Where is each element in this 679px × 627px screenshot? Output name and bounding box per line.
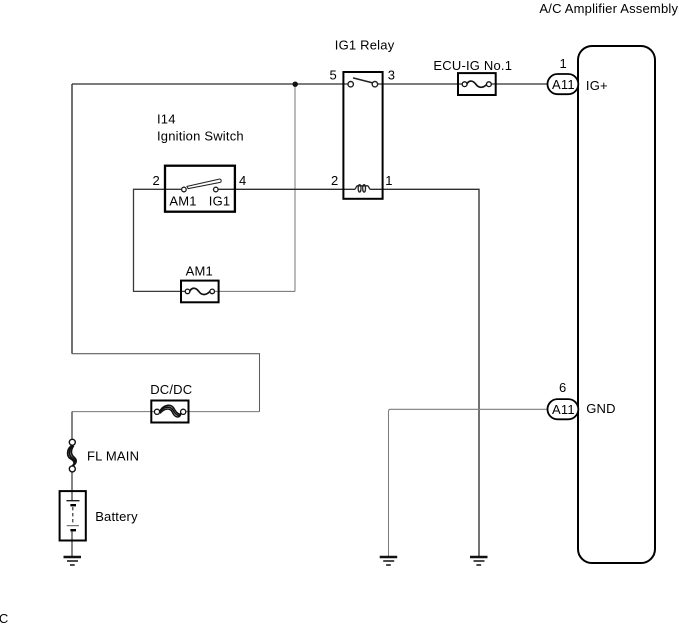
ignition switch IG1 contact circle bbox=[214, 187, 219, 192]
A/C amplifier assembly box bbox=[578, 46, 655, 563]
ignition switch lever bbox=[187, 179, 221, 189]
wire: ignition switch pin 4 to relay coil pin 2 bbox=[218, 188, 355, 190]
battery plate short top bbox=[70, 504, 76, 506]
svg-text:A11: A11 bbox=[552, 77, 575, 92]
ignition switch I14 box bbox=[165, 166, 235, 212]
relay IG1 box bbox=[343, 72, 382, 199]
svg-text:C: C bbox=[0, 611, 8, 626]
battery plate long bottom bbox=[67, 525, 79, 527]
relay coil bbox=[355, 185, 371, 192]
relay pin 3 contact circle bbox=[372, 82, 377, 87]
wire: relay coil pin 1 to ground riser bbox=[370, 189, 479, 556]
svg-text:1: 1 bbox=[385, 173, 392, 188]
wire: battery negative to ground bbox=[71, 530, 73, 556]
fusible link FL MAIN element bbox=[68, 445, 76, 466]
wire: DC/DC left lead bbox=[72, 411, 154, 413]
wire: jog over to DC/DC output riser bbox=[72, 354, 260, 412]
connector A11 pin 1 oval bbox=[548, 74, 579, 94]
wire: battery feed top horizontal to relay pin 5 bbox=[72, 83, 348, 85]
svg-text:IG1 Relay: IG1 Relay bbox=[335, 37, 395, 52]
svg-text:IG1: IG1 bbox=[209, 194, 231, 209]
wire: branch from junction down to AM1 fuse line bbox=[294, 84, 296, 291]
battery plate short bottom bbox=[70, 529, 76, 531]
fusible link FL MAIN bottom terminal bbox=[69, 466, 75, 472]
fuse AM1 right terminal bbox=[210, 289, 215, 294]
ignition switch AM1 contact circle bbox=[182, 187, 187, 192]
svg-text:DC/DC: DC/DC bbox=[150, 382, 192, 397]
fusible link DC/DC left terminal bbox=[154, 409, 159, 414]
connector A11 pin 6 oval bbox=[548, 399, 579, 419]
svg-text:ECU-IG No.1: ECU-IG No.1 bbox=[433, 58, 512, 73]
wire: down to FL MAIN bbox=[71, 412, 73, 440]
node junction dot at top feed bbox=[293, 82, 298, 87]
svg-text:AM1: AM1 bbox=[169, 194, 196, 209]
fusible link FL MAIN top terminal bbox=[69, 439, 75, 445]
wire: DC/DC right lead bbox=[186, 411, 260, 413]
wire: relay pin 3 to ECU-IG fuse bbox=[378, 83, 463, 85]
svg-text:A11: A11 bbox=[552, 402, 575, 417]
fusible link DC/DC right terminal bbox=[181, 409, 186, 414]
svg-text:A/C Amplifier Assembly: A/C Amplifier Assembly bbox=[539, 1, 678, 16]
fuse AM1 box bbox=[181, 281, 219, 303]
wire: ECU-IG fuse to A11 IG+ connector bbox=[491, 83, 547, 85]
relay pin 5 contact circle bbox=[348, 82, 353, 87]
relay contact lever bbox=[353, 78, 374, 83]
ground symbol under A11 GND branch bbox=[380, 557, 398, 565]
wire: left vertical main feed bbox=[71, 84, 73, 354]
svg-text:FL MAIN: FL MAIN bbox=[87, 449, 139, 464]
svg-text:3: 3 bbox=[388, 68, 395, 83]
fuse ECU-IG No.1 box bbox=[458, 73, 496, 95]
fusible link DC/DC element bbox=[160, 405, 182, 417]
svg-text:6: 6 bbox=[559, 380, 566, 395]
ground symbol under relay coil riser bbox=[470, 557, 488, 565]
fuse ECU-IG right terminal bbox=[487, 82, 492, 87]
svg-text:Battery: Battery bbox=[95, 509, 138, 524]
battery dashed center line bbox=[72, 507, 74, 525]
ground symbol under battery bbox=[64, 557, 82, 565]
wire: A11 GND connector to ground riser bbox=[389, 409, 548, 556]
fusible link DC/DC box bbox=[151, 401, 188, 423]
svg-text:IG+: IG+ bbox=[586, 78, 608, 93]
fuse AM1 left terminal bbox=[185, 289, 190, 294]
svg-text:4: 4 bbox=[239, 173, 246, 188]
fuse ECU-IG element bbox=[467, 81, 487, 87]
svg-text:1: 1 bbox=[560, 56, 567, 71]
svg-text:AM1: AM1 bbox=[186, 264, 213, 279]
svg-text:Ignition Switch: Ignition Switch bbox=[157, 129, 244, 144]
svg-text:2: 2 bbox=[331, 173, 338, 188]
wire: AM1 fuse to left riser up to ignition switch pin 2 bbox=[134, 189, 186, 291]
svg-text:5: 5 bbox=[330, 68, 337, 83]
wire: FL MAIN to battery bbox=[71, 472, 73, 501]
battery plate long top bbox=[66, 500, 79, 502]
svg-text:GND: GND bbox=[586, 401, 616, 416]
fuse AM1 element bbox=[190, 288, 210, 294]
svg-text:I14: I14 bbox=[157, 111, 176, 126]
fuse ECU-IG left terminal bbox=[462, 82, 467, 87]
wire: junction branch to AM1 fuse bbox=[215, 290, 296, 292]
svg-text:2: 2 bbox=[153, 173, 160, 188]
battery box bbox=[60, 491, 86, 540]
